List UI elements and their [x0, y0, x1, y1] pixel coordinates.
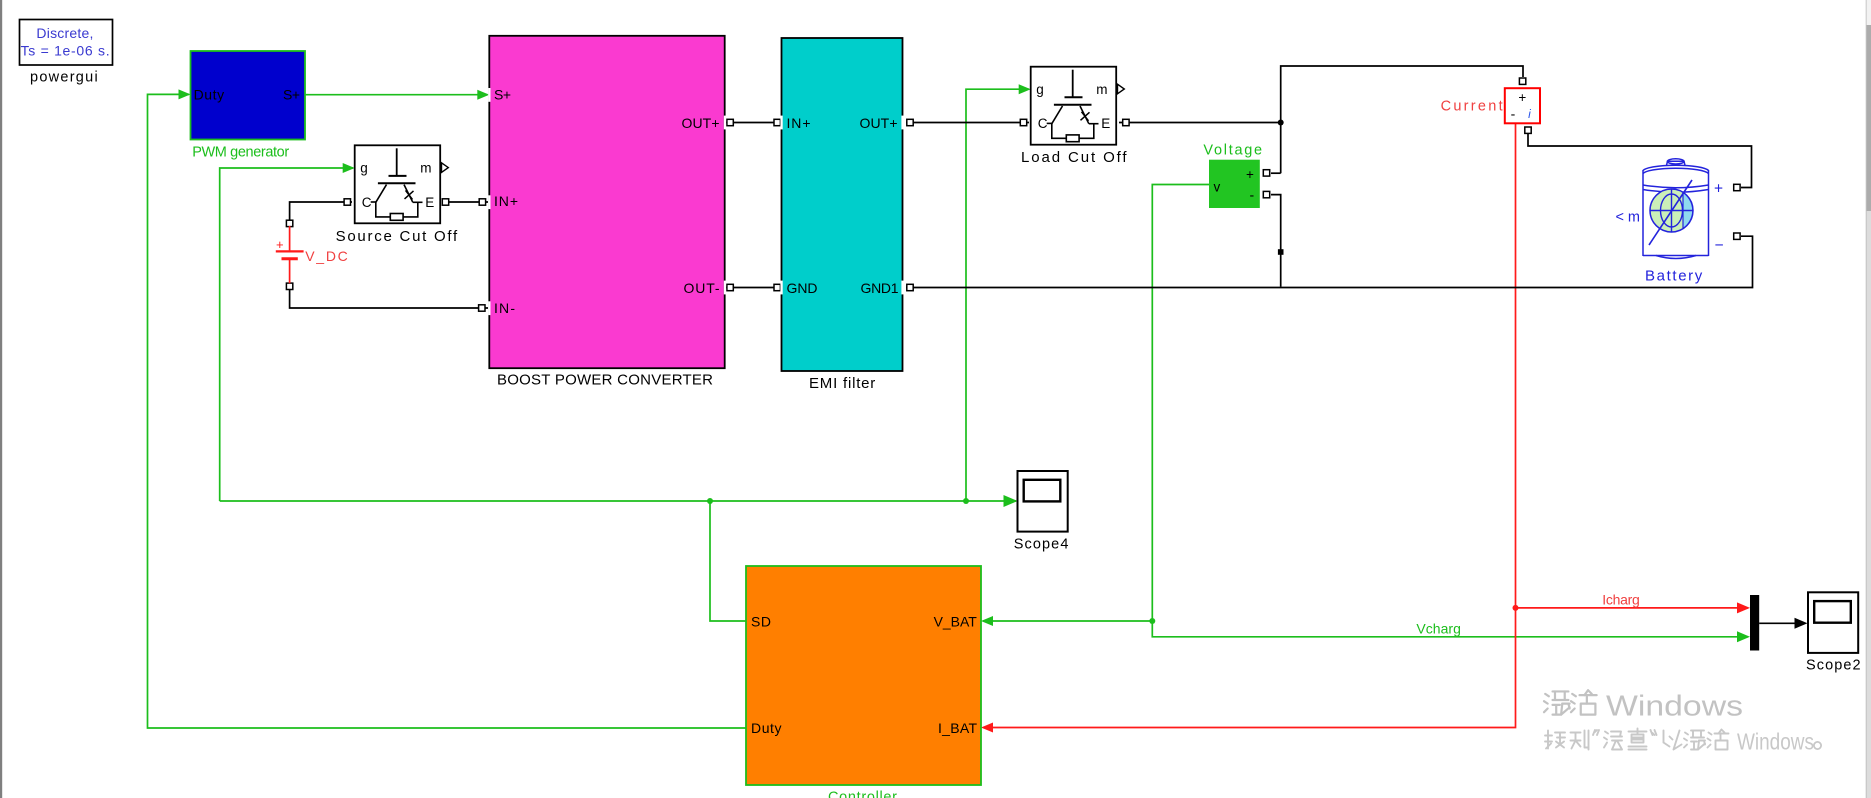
svg-text:Battery: Battery	[1645, 268, 1703, 285]
svg-text:Vcharg: Vcharg	[1416, 621, 1461, 637]
svg-text:OUT-: OUT-	[684, 280, 720, 296]
svg-text:+: +	[1714, 181, 1723, 198]
svg-text:Scope4: Scope4	[1014, 537, 1069, 553]
wire mux to Scope2	[1759, 622, 1795, 624]
scrollbar top button	[1867, 0, 1871, 25]
svg-text:BOOST POWER CONVERTER: BOOST POWER CONVERTER	[497, 371, 713, 388]
wire Duty feedback Controller to PWM generator	[148, 94, 747, 728]
wire V_BAT branch	[983, 620, 1152, 622]
svg-text:+: +	[276, 237, 284, 252]
svg-text:PWM generator: PWM generator	[192, 144, 289, 160]
svg-text:Windows: Windows	[1606, 691, 1743, 723]
powergui block	[20, 20, 113, 66]
svg-text:Scope2: Scope2	[1806, 658, 1861, 674]
wire PWM S+ to BOOST S+	[305, 94, 488, 96]
svg-text:C: C	[1038, 116, 1048, 131]
arrow Vcharg into mux	[1737, 631, 1750, 642]
block Source Cut Off IGBT	[355, 145, 441, 223]
svg-text:E: E	[425, 195, 434, 210]
block Battery icon	[1643, 159, 1709, 259]
block Controller	[746, 566, 981, 785]
svg-text:+: +	[1246, 167, 1254, 182]
svg-text:Discrete,: Discrete,	[36, 25, 93, 41]
svg-text:-: -	[1511, 106, 1516, 122]
wire node to Voltage +	[1271, 172, 1281, 174]
svg-text:IN-: IN-	[494, 300, 515, 316]
scrollbar thumb	[1867, 25, 1871, 211]
svg-text:Duty: Duty	[751, 720, 782, 736]
svg-text:IN+: IN+	[494, 193, 518, 209]
svg-text:GND1: GND1	[861, 280, 899, 296]
svg-text:OUT+: OUT+	[682, 115, 720, 131]
wire Load E to node	[1119, 122, 1281, 124]
wire BOOST OUT- to EMI GND	[726, 287, 780, 289]
svg-text:m: m	[1096, 82, 1107, 97]
wire SD from Controller SD port	[710, 501, 746, 621]
wire SD branch up to Load Cut Off g	[966, 89, 1029, 501]
wire V_DC minus to BOOST IN-	[290, 289, 488, 308]
wire Current minus to Battery plus	[1528, 134, 1752, 188]
wire Icharg branch to mux	[1516, 607, 1749, 609]
junction Load E node	[1278, 120, 1284, 126]
junction SD-Load	[963, 498, 969, 504]
window left border	[0, 0, 2, 798]
block Scope4	[1018, 471, 1068, 532]
wire Voltage v to V_BAT and Vcharg	[1152, 185, 1748, 637]
svg-text:g: g	[360, 161, 368, 176]
wire BOOST OUT+ to EMI IN+	[726, 122, 780, 124]
block Voltage measurement	[1209, 160, 1260, 208]
svg-text:<m: <m	[1616, 210, 1641, 226]
block BOOST POWER CONVERTER	[489, 36, 724, 368]
svg-text:V_BAT: V_BAT	[934, 614, 978, 630]
junction SD-PWM	[707, 498, 713, 504]
svg-text:Controller: Controller	[828, 790, 897, 798]
svg-text:OUT+: OUT+	[860, 115, 898, 131]
junction Vcharg	[1149, 618, 1155, 624]
svg-text:powergui: powergui	[30, 69, 98, 85]
block PWM generator	[191, 51, 306, 140]
svg-text:E: E	[1101, 116, 1110, 131]
svg-text:S+: S+	[494, 87, 511, 103]
waypoint square on Voltage minus wire	[1278, 249, 1284, 255]
block Load Cut Off IGBT	[1031, 67, 1117, 145]
svg-text:Duty: Duty	[194, 87, 225, 103]
watermark line2	[1545, 731, 1565, 749]
svg-text:C: C	[362, 195, 372, 210]
svg-text:i: i	[1528, 107, 1531, 121]
svg-text:−: −	[1715, 237, 1724, 254]
scrollbar track right	[1867, 0, 1871, 798]
block EMI filter	[782, 38, 903, 371]
junction Icharg	[1513, 605, 1519, 611]
wire EMI GND1 to Battery minus	[906, 236, 1753, 287]
svg-text:v: v	[1214, 180, 1221, 195]
svg-text:I_BAT: I_BAT	[938, 720, 977, 736]
wire V_DC plus to Source C	[290, 202, 352, 221]
block Current measurement	[1505, 88, 1540, 123]
wire node up to Current +	[1281, 66, 1523, 173]
mux bar	[1750, 595, 1759, 651]
svg-text:S+: S+	[283, 87, 300, 103]
svg-text:Load Cut Off: Load Cut Off	[1021, 149, 1127, 166]
svg-text:Source Cut Off: Source Cut Off	[336, 228, 458, 245]
wire SD branch to Source Cut Off g	[220, 168, 353, 501]
V_DC battery symbol	[289, 226, 291, 250]
wire Voltage minus to ground rail	[1271, 195, 1281, 287]
wire EMI OUT+ to Load C	[906, 122, 1029, 124]
svg-text:GND: GND	[787, 280, 818, 296]
svg-text:-: -	[1250, 187, 1255, 203]
watermark line1 CJK	[1544, 691, 1570, 714]
svg-text:Windows: Windows	[1737, 729, 1814, 755]
svg-text:m: m	[420, 161, 431, 176]
wire Current i to I_BAT	[983, 124, 1516, 728]
wire arrow into Scope4	[1004, 495, 1018, 507]
svg-text:+: +	[1518, 90, 1526, 105]
svg-text:Icharg: Icharg	[1602, 591, 1640, 607]
svg-text:IN+: IN+	[787, 115, 811, 131]
svg-text:V_DC: V_DC	[305, 248, 348, 264]
svg-text:SD: SD	[751, 614, 771, 630]
svg-text:EMI filter: EMI filter	[809, 375, 875, 392]
wire Source E to BOOST IN+	[443, 201, 488, 203]
wire SD net horizontal	[220, 500, 1016, 502]
svg-text:Ts = 1e-06 s.: Ts = 1e-06 s.	[21, 42, 110, 58]
svg-text:g: g	[1036, 82, 1044, 97]
svg-text:Current: Current	[1441, 99, 1503, 115]
block Scope2	[1808, 592, 1858, 653]
